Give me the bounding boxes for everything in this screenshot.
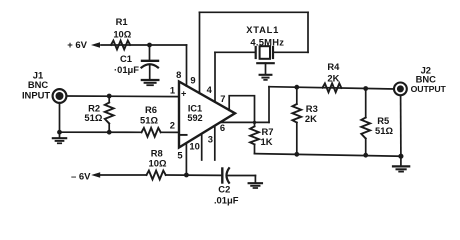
wire bottom rail: [255, 154, 401, 157]
node R2 bottom: [107, 130, 112, 135]
ground (J2): [400, 156, 402, 166]
svg-text:10: 10: [189, 141, 199, 152]
+6V arrow: [91, 42, 100, 48]
svg-text:51Ω: 51Ω: [140, 115, 158, 126]
node R7 top: [253, 121, 256, 124]
svg-text:– 6V: – 6V: [71, 172, 91, 183]
svg-text:IC1: IC1: [188, 104, 202, 114]
wire XTAL loop right: [307, 12, 309, 52]
svg-text:OUTPUT: OUTPUT: [411, 84, 447, 94]
svg-text:C2: C2: [218, 183, 230, 194]
connector J2: [394, 83, 407, 96]
ground (XTAL): [260, 74, 272, 76]
svg-text:1: 1: [170, 85, 175, 96]
node R1/C1 junction: [147, 43, 152, 48]
wire pin 4: [214, 52, 216, 102]
svg-text:51Ω: 51Ω: [84, 112, 102, 123]
node J1 ground junction: [57, 130, 62, 135]
resistor R1: [111, 41, 130, 50]
svg-text:51Ω: 51Ω: [375, 125, 393, 136]
svg-text:3: 3: [208, 134, 213, 145]
svg-text:8: 8: [176, 69, 181, 80]
capacitor C2: [221, 169, 223, 183]
node R5 top: [363, 86, 368, 91]
wire pin 10 stub: [201, 134, 203, 160]
svg-text:·01μF: ·01μF: [114, 64, 139, 75]
svg-text:2K: 2K: [305, 113, 317, 124]
svg-text:XTAL1: XTAL1: [246, 24, 279, 35]
svg-text:BNC: BNC: [28, 79, 49, 90]
node R3 top: [294, 85, 299, 90]
resistor R4: [323, 83, 342, 92]
svg-text:6: 6: [220, 122, 225, 133]
node R5 bottom: [363, 153, 368, 158]
svg-text:10Ω: 10Ω: [113, 29, 131, 40]
resistor R2: [108, 96, 110, 103]
-6V arrow: [91, 172, 100, 178]
node R2 top: [107, 94, 112, 99]
connector J1: [53, 89, 67, 103]
svg-text:R4: R4: [327, 61, 340, 72]
resistor R6: [142, 128, 161, 137]
wire R8 to C2: [166, 174, 222, 176]
node R3 bottom: [294, 152, 299, 157]
svg-text:.01μF: .01μF: [214, 195, 239, 206]
wire lower-left to R6: [60, 131, 142, 133]
svg-text:1K: 1K: [261, 136, 273, 147]
wire pin 8: [186, 45, 188, 86]
wire R6 to pin 2: [161, 131, 179, 133]
wire pin 5: [185, 143, 187, 175]
svg-text:R6: R6: [145, 104, 157, 115]
ground (J1): [59, 132, 61, 138]
svg-text:4.5MHz: 4.5MHz: [250, 36, 284, 47]
wire crystal left lead: [215, 51, 256, 53]
+6V label: [67, 40, 87, 51]
capacitor C1: [149, 45, 151, 60]
J1 BNC input labels: [22, 70, 50, 101]
resistor R8: [147, 171, 166, 180]
crystal holder plate: [257, 62, 273, 64]
svg-text:+ 6V: + 6V: [67, 40, 87, 51]
wire top rail: [269, 87, 394, 89]
wire +6V to pin8: [101, 44, 187, 46]
wire riser to top rail: [268, 87, 270, 123]
wire crystal right lead: [274, 51, 308, 53]
wire pin 7 loop: [229, 96, 254, 123]
ground (C1): [142, 79, 159, 81]
node pin5 junction: [184, 173, 189, 178]
wire XTAL loop top: [200, 11, 309, 13]
svg-text:+: +: [181, 89, 186, 99]
svg-text:2: 2: [170, 119, 175, 130]
svg-text:7: 7: [220, 93, 225, 104]
wire J2 stem: [400, 95, 402, 156]
node J2 ground junction: [398, 154, 403, 159]
crystal XTAL1: [255, 47, 257, 58]
svg-text:C1: C1: [120, 53, 132, 64]
svg-text:5: 5: [177, 150, 182, 161]
resistor R3: [296, 87, 298, 104]
svg-text:4: 4: [207, 84, 213, 95]
svg-text:592: 592: [187, 113, 202, 123]
svg-text:INPUT: INPUT: [22, 90, 50, 101]
wire J1 to pin 1: [66, 95, 179, 98]
-6V label: [71, 172, 91, 183]
wire pin 9: [199, 12, 201, 93]
svg-text:2K: 2K: [327, 72, 339, 83]
op-amp IC1 592: [179, 82, 235, 148]
wire pin 6: [220, 121, 269, 123]
resistor R5: [365, 89, 367, 118]
svg-text:9: 9: [190, 75, 195, 86]
svg-text:R1: R1: [116, 16, 128, 27]
svg-text:10Ω: 10Ω: [149, 158, 167, 169]
resistor R7: [254, 122, 256, 126]
ground (C2): [254, 176, 256, 184]
wire pin 3 stub: [214, 126, 216, 160]
wire J1 stem down: [59, 103, 61, 132]
wire -6V to R8: [101, 174, 147, 176]
